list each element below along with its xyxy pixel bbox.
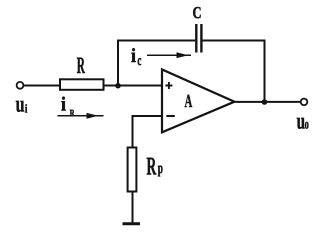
op-amp A triangle	[162, 70, 235, 133]
op-amp plus sign	[165, 82, 172, 89]
wire feedback left vertical	[117, 40, 119, 86]
capacitor C right plate	[200, 24, 202, 53]
wire op-amp inverting input horizontal	[133, 115, 163, 117]
arrow i_c	[147, 54, 191, 56]
wire feedback top left to capacitor	[117, 40, 195, 42]
svg-text:u: u	[16, 91, 25, 116]
svg-text:C: C	[193, 3, 202, 22]
wire op-amp output to terminal	[235, 101, 301, 103]
resistor Rp	[128, 148, 137, 192]
op-amp minus sign	[166, 115, 174, 117]
svg-text:R: R	[147, 152, 157, 181]
node junction dot at output	[262, 99, 268, 105]
svg-text:i: i	[131, 45, 136, 67]
wire feedback right vertical to output node	[264, 40, 266, 102]
arrow i_R	[58, 115, 104, 117]
wire capacitor to feedback right corner	[202, 40, 265, 42]
input terminal u_i	[17, 82, 24, 89]
svg-text:u: u	[297, 108, 306, 133]
resistor R	[60, 79, 104, 90]
svg-text:c: c	[137, 53, 141, 69]
wire Rp to ground	[132, 192, 134, 224]
svg-text:R: R	[70, 109, 75, 119]
wire resistor R to node A	[104, 85, 163, 87]
svg-text:o: o	[305, 118, 309, 133]
ground	[123, 222, 141, 225]
svg-text:i: i	[25, 102, 28, 116]
node junction dot at op-amp input	[115, 83, 121, 89]
svg-text:p: p	[158, 160, 163, 177]
wire down to resistor Rp	[132, 115, 134, 148]
capacitor C left plate	[195, 24, 197, 53]
output terminal u_o	[301, 99, 308, 106]
wire input to resistor R	[24, 85, 60, 87]
svg-text:i: i	[61, 94, 66, 116]
svg-text:R: R	[77, 53, 86, 79]
svg-text:A: A	[185, 92, 193, 112]
